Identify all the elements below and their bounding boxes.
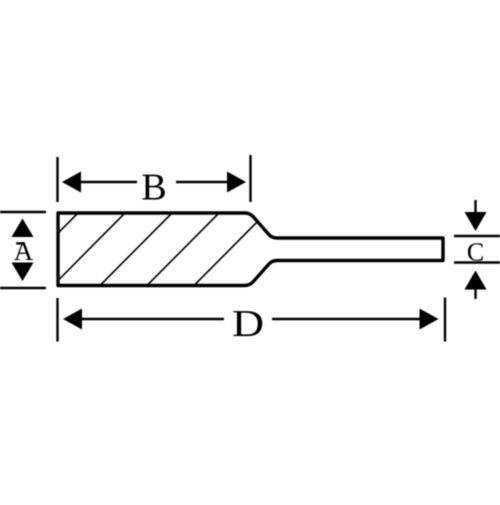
dimension A down arrowhead	[12, 263, 34, 282]
dimension C lower arrowhead	[465, 271, 487, 290]
dimension A extension line top	[0, 211, 46, 214]
hatch line 2	[53, 213, 125, 286]
dimension D extension line left	[56, 298, 58, 342]
dimension B right arrowhead	[227, 172, 246, 193]
dimension B left arrowhead	[62, 172, 81, 193]
label A apex serif	[16, 242, 23, 244]
dimension A extension line bottom	[0, 287, 46, 290]
dimension C extension line top	[454, 235, 500, 237]
label D	[233, 311, 262, 336]
dimension A up arrowhead	[12, 219, 34, 238]
burr tool outline (head + neck + shank)	[58, 213, 443, 286]
hatch line 3	[100, 213, 172, 286]
dimension D left arrowhead	[63, 309, 82, 330]
dimension B line right segment	[176, 181, 233, 183]
label C	[468, 243, 483, 260]
dimension B extension line left	[56, 157, 58, 202]
hatch line 5	[194, 213, 266, 286]
dimension D line left segment	[76, 318, 224, 320]
dimension C lower arrow tail	[474, 287, 476, 299]
dimension C upper arrow tail	[474, 200, 476, 214]
dimension D line right segment	[272, 318, 426, 320]
dimension C extension line bottom	[454, 261, 500, 263]
dimension C upper arrowhead	[465, 212, 487, 231]
label A	[14, 242, 33, 260]
hatch line 4	[147, 213, 219, 286]
dimension B line left segment	[75, 181, 137, 183]
dimension B extension line right	[249, 155, 251, 202]
dimension D extension line right	[444, 298, 446, 342]
dimension D right arrowhead	[420, 309, 439, 330]
hatch lines on head	[6, 213, 266, 286]
label B	[142, 175, 164, 200]
hatch line 1	[6, 213, 78, 286]
